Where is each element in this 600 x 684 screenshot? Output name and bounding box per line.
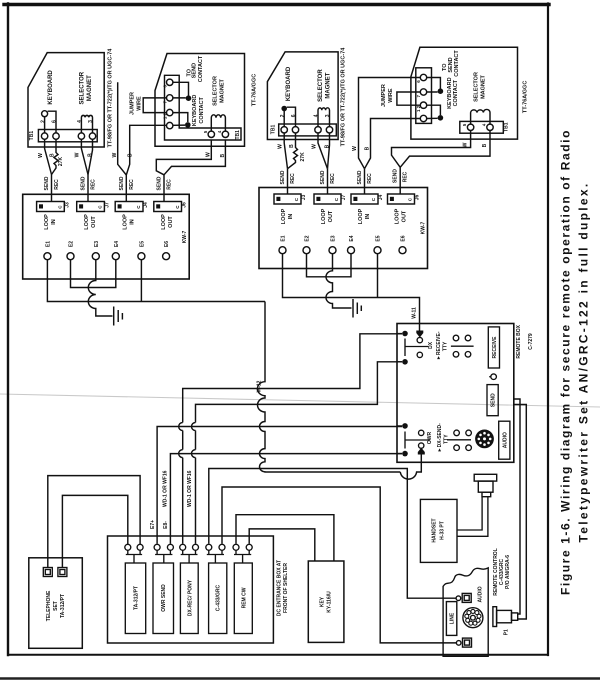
terminal E3 <box>329 247 336 254</box>
svg-text:6: 6 <box>291 114 297 117</box>
remote control body with torn top edge <box>443 568 488 656</box>
svg-text:TB1: TB1 <box>235 130 241 140</box>
svg-text:E1: E1 <box>281 235 287 241</box>
svg-text:KEYBOARD: KEYBOARD <box>48 70 54 105</box>
svg-text:1 2: 1 2 <box>162 112 167 119</box>
svg-text:WIRE: WIRE <box>137 96 143 111</box>
wire telephone L2 to DC terminal 1 <box>62 495 127 567</box>
connector B pins <box>276 197 280 201</box>
svg-text:B: B <box>289 144 295 148</box>
wire TT-76A#2 t5 route to J6 (W) <box>392 131 471 168</box>
terminal E4 <box>348 247 355 254</box>
svg-text:E4: E4 <box>349 235 355 241</box>
terminal 4 <box>78 133 84 139</box>
wire terminal4 to J7 send <box>318 133 328 169</box>
svg-text:J3: J3 <box>301 195 307 201</box>
svg-text:SEND: SEND <box>119 176 125 190</box>
terminal strip (L shape) of TT-76A #1 <box>165 75 242 140</box>
svg-text:E4: E4 <box>114 241 120 247</box>
page fold artifact line <box>0 394 600 407</box>
svg-text:LOOP: LOOP <box>84 214 90 230</box>
wire DC terminal 8 to remote control L2 <box>222 487 457 643</box>
wire TT-76A#2 t6 route to J4 (W) <box>359 78 421 169</box>
wire KEY b : to DC terminal 9 <box>236 515 334 561</box>
wire KEY a : to DC terminal 10 <box>249 529 315 561</box>
P1 cable wires from remote box <box>514 399 527 619</box>
svg-text:AUDIO: AUDIO <box>502 432 508 448</box>
terminal E5 <box>138 253 145 260</box>
svg-text:2: 2 <box>40 120 46 123</box>
terminal L1 circle <box>456 596 461 601</box>
terminal 5 <box>467 124 473 130</box>
svg-text:C-433/GRC: C-433/GRC <box>216 585 222 612</box>
svg-text:C-433/GRC: C-433/GRC <box>499 559 505 586</box>
sub-box OWR SEND <box>153 563 174 634</box>
svg-text:J7: J7 <box>341 195 347 201</box>
terminal 2 <box>281 127 287 133</box>
svg-text:SET: SET <box>53 601 59 611</box>
svg-text:IN: IN <box>51 219 57 225</box>
terminal 7 <box>420 89 426 95</box>
terminal 6 <box>420 74 426 80</box>
svg-text:DC ENTRANCE BOX AT: DC ENTRANCE BOX AT <box>277 560 283 616</box>
border frame top <box>4 3 549 6</box>
svg-text:KEY: KEY <box>320 596 326 607</box>
plug P1 <box>493 607 497 627</box>
teletypewriter TT-76A #1 body <box>155 54 245 147</box>
border frame left <box>7 4 9 656</box>
svg-text:RECEIVE: RECEIVE <box>492 336 498 359</box>
svg-text:J4: J4 <box>143 202 149 208</box>
svg-text:IN: IN <box>129 219 135 225</box>
svg-text:TB1: TB1 <box>29 131 35 141</box>
terminal 4 <box>315 127 321 133</box>
connector J4 <box>351 194 378 204</box>
connector J6 <box>388 194 415 204</box>
send contact wiring (6-7) <box>173 82 189 98</box>
svg-text:REC: REC <box>129 179 135 190</box>
svg-text:W: W <box>462 142 468 147</box>
svg-text:MAGNET: MAGNET <box>325 72 331 98</box>
keyboard contact wiring <box>427 105 441 118</box>
svg-text:CONTACT: CONTACT <box>453 79 459 106</box>
terminal 3 <box>326 127 332 133</box>
svg-text:KEYBOARD: KEYBOARD <box>192 95 198 127</box>
selector magnet coil of TT-76A #2 <box>471 109 490 124</box>
terminal E1 <box>44 253 51 260</box>
connector J6 <box>154 202 182 212</box>
svg-text:MAGNET: MAGNET <box>481 74 487 98</box>
terminal E1 <box>279 247 286 254</box>
wire terminal6 with 27K resistor to J3 rec <box>288 133 298 169</box>
svg-text:W: W <box>352 146 358 151</box>
sub-box C-433/GRC <box>209 563 227 634</box>
DC entrance box body <box>108 536 274 643</box>
crypto unit KW-7 #1 body <box>23 194 190 279</box>
terminal E6 <box>163 253 170 260</box>
wire J7 feed <box>327 169 329 194</box>
SEND button <box>487 385 498 416</box>
svg-text:KY-116/U: KY-116/U <box>327 591 333 613</box>
wire E2 to E4 <box>71 260 116 288</box>
wire E8- : DC terminal 4 to OWR dot 2 <box>170 454 402 544</box>
wire J7 feed <box>87 175 89 202</box>
terminal L2 circle <box>456 641 461 646</box>
svg-text:3: 3 <box>88 120 94 123</box>
wire terminal2 to J3 send <box>45 139 52 174</box>
audio connector (filled) <box>475 430 494 449</box>
svg-text:CONTACT: CONTACT <box>454 50 460 77</box>
wire terminal3 to J7 rec <box>328 133 330 169</box>
svg-text:TO: TO <box>442 63 448 71</box>
terminals row <box>125 544 131 550</box>
svg-text:E2: E2 <box>305 235 311 241</box>
svg-text:TTY: TTY <box>443 434 449 444</box>
wire WD-1 b : DC terminal 6 to DX dot 2 <box>192 362 403 544</box>
svg-text:TELEPHONE: TELEPHONE <box>46 590 52 621</box>
jumper wire between 7 and 2 <box>397 92 420 105</box>
svg-text:►DX-SEND-: ►DX-SEND- <box>437 423 443 452</box>
terminal 7 <box>167 95 173 101</box>
ground symbol <box>353 299 361 318</box>
wire E3 to ground (hops over crossing wires) <box>326 254 352 308</box>
svg-text:H-33 PT: H-33 PT <box>440 521 446 540</box>
wire E7+ : DC terminal 3 to OWR dot 1 <box>157 427 402 544</box>
border frame bottom <box>8 654 548 656</box>
svg-text:REC: REC <box>367 173 373 184</box>
svg-text:W: W <box>38 153 44 158</box>
svg-text:B: B <box>220 154 226 158</box>
svg-text:WD-1 OR WF16: WD-1 OR WF16 <box>163 470 169 507</box>
svg-text:SELECTOR: SELECTOR <box>79 71 85 104</box>
terminal 4 <box>487 124 493 130</box>
wire J4 feed <box>364 169 366 194</box>
svg-text:B: B <box>364 146 370 150</box>
svg-text:W: W <box>278 144 284 149</box>
svg-text:W: W <box>75 152 81 157</box>
DX receive jack group <box>397 334 402 362</box>
svg-text:JUMPER: JUMPER <box>381 84 387 107</box>
svg-text:4: 4 <box>314 114 320 117</box>
wire remote box to P1 (b) <box>514 405 527 620</box>
svg-text:SELECTOR: SELECTOR <box>474 72 480 102</box>
connector B pins <box>39 204 43 208</box>
terminal E2 <box>67 253 74 260</box>
terminal 2 <box>41 133 47 139</box>
svg-text:E3: E3 <box>331 235 337 241</box>
wire TT-76A t5 route to J6 (W) <box>156 140 211 175</box>
entry dot OWR 2 <box>402 451 408 457</box>
terminal L1 square <box>462 593 471 602</box>
AUDIO button <box>499 421 510 459</box>
wire J4 feed <box>125 175 127 202</box>
svg-text:TB1: TB1 <box>271 125 277 135</box>
plug tip W-12 <box>418 448 425 455</box>
svg-text:HANDSET: HANDSET <box>432 518 438 542</box>
svg-text:OUT: OUT <box>328 210 334 222</box>
terminal strip TB1 of TT-76A #2 <box>460 121 504 133</box>
terminal E5 <box>374 247 381 254</box>
svg-text:KEYBOARD: KEYBOARD <box>286 66 292 101</box>
svg-text:SEND: SEND <box>320 170 326 184</box>
svg-text:MAGNET: MAGNET <box>220 78 226 102</box>
junction dot send contact <box>186 95 192 101</box>
svg-text:►RECEIVE-: ►RECEIVE- <box>436 331 442 360</box>
svg-text:REMOTE CONTROL: REMOTE CONTROL <box>493 548 499 596</box>
keyboard contact (closed dot) of TT-98 #2 <box>284 107 295 127</box>
LINE button <box>446 602 456 636</box>
terminal 2 <box>167 109 173 115</box>
svg-text:B: B <box>127 153 133 157</box>
connector J7 <box>77 202 105 212</box>
teletypewriter TT-98 #2 body <box>267 52 338 140</box>
connector J3 <box>274 194 301 204</box>
junction dot send contact <box>438 88 444 94</box>
svg-text:KW-7: KW-7 <box>421 221 427 234</box>
svg-text:SELECTOR: SELECTOR <box>318 69 324 102</box>
svg-text:SEND: SEND <box>357 170 363 184</box>
svg-text:TT-76A/GGC: TT-76A/GGC <box>523 81 529 113</box>
svg-text:LOOP: LOOP <box>358 208 364 224</box>
terminal E4 <box>112 253 119 260</box>
svg-text:DX: DX <box>428 341 434 349</box>
page bottom rule <box>0 677 600 679</box>
svg-text:J3: J3 <box>64 202 70 208</box>
svg-text:SEND: SEND <box>44 176 50 190</box>
svg-text:P1: P1 <box>503 629 509 635</box>
sub-box REM CW <box>234 563 252 634</box>
terminal 1 <box>167 122 173 128</box>
svg-text:WD-1 OR WF16: WD-1 OR WF16 <box>187 470 193 507</box>
svg-text:JUMPER: JUMPER <box>129 92 135 115</box>
wire DC terminal 7 to remote control L1 <box>209 469 456 599</box>
svg-text:E2: E2 <box>69 241 75 247</box>
svg-text:SEND: SEND <box>491 393 497 407</box>
wire TT-76A t1 route to J4 (B) <box>126 125 166 175</box>
svg-text:C-7279: C-7279 <box>528 333 534 350</box>
remote box body <box>397 324 514 463</box>
terminal 1 <box>420 115 426 121</box>
wire E1/E5 to W-12 <box>47 260 265 302</box>
selector magnet coil of TT-76A #1 <box>211 115 225 131</box>
sub-box DX-REC/PONY <box>180 563 198 634</box>
svg-text:LOOP: LOOP <box>321 208 327 224</box>
svg-text:W-12: W-12 <box>257 380 263 392</box>
keyboard dot contact <box>281 106 287 112</box>
teletypewriter TT-98 #1 body <box>28 53 104 147</box>
svg-text:MAGNET: MAGNET <box>87 75 93 101</box>
wire E2 to E4 <box>307 254 352 277</box>
OWR spare jacks <box>454 430 460 436</box>
svg-text:REC: REC <box>54 179 60 190</box>
wire J6 feed <box>399 167 401 194</box>
svg-text:Figure 1-6. Wiring diagram fo: Figure 1-6. Wiring diagram for secure re… <box>558 129 572 595</box>
svg-text:3: 3 <box>325 114 331 117</box>
svg-text:TT-98/FG OR TT-722(*)/TG OR U: TT-98/FG OR TT-722(*)/TG OR UGC-74 <box>108 48 114 148</box>
terminal 6 <box>167 79 173 85</box>
entry dot DX 2 <box>402 359 408 365</box>
entry dot DX 1 <box>402 331 408 337</box>
svg-text:OWR: OWR <box>427 432 433 445</box>
svg-text:SEND: SEND <box>280 170 286 184</box>
svg-text:CONTACT: CONTACT <box>198 55 204 82</box>
svg-text:REC: REC <box>290 173 296 184</box>
terminal 6 <box>53 133 59 139</box>
svg-text:DX-REC/ PONY: DX-REC/ PONY <box>187 579 193 616</box>
svg-text:1 2: 1 2 <box>416 105 421 112</box>
svg-text:TB1: TB1 <box>504 122 510 132</box>
svg-text:REC: REC <box>167 179 173 190</box>
svg-text:REMOTE BOX: REMOTE BOX <box>516 324 522 358</box>
OWR send jack group <box>397 426 402 454</box>
svg-text:W: W <box>312 144 318 149</box>
sub-box TA-312/PT <box>125 563 145 634</box>
svg-text:B: B <box>49 153 55 157</box>
svg-text:E5: E5 <box>376 235 382 241</box>
selector magnet coil of TT-98 #2 <box>318 108 330 127</box>
handset cord (double line) <box>457 497 488 537</box>
terminal L1 <box>43 568 52 577</box>
connector J4 <box>115 202 143 212</box>
terminal L2 square <box>463 638 472 647</box>
wire J3 feed <box>287 169 289 194</box>
wire TT-76A t4 route to J6 (B) <box>164 140 225 175</box>
send contact wiring <box>427 78 441 93</box>
svg-text:SEND: SEND <box>157 176 163 190</box>
teletypewriter TT-76A #2 body <box>411 47 518 139</box>
terminal tie bars <box>126 550 142 563</box>
wire remote box to P1 (a) <box>514 399 520 614</box>
svg-text:OUT: OUT <box>168 216 174 228</box>
plug tip W-11 <box>416 331 423 338</box>
terminal E3 <box>92 253 99 260</box>
svg-text:TT-76A/GGC: TT-76A/GGC <box>252 74 258 106</box>
svg-text:P/O AN/GRA-6: P/O AN/GRA-6 <box>505 555 511 589</box>
keyboard contact (open) of TT-98 #1 <box>42 111 48 117</box>
wire terminal6 with 27K resistor to J3 rec <box>52 139 59 174</box>
svg-text:LOOP: LOOP <box>394 208 400 224</box>
svg-text:27K: 27K <box>58 157 64 167</box>
svg-text:WIRE: WIRE <box>388 88 394 103</box>
svg-text:TA-312/PT: TA-312/PT <box>134 586 140 610</box>
svg-text:E6: E6 <box>164 241 170 247</box>
svg-text:E5: E5 <box>139 241 145 247</box>
svg-text:FRONT OF SHELTER: FRONT OF SHELTER <box>283 563 289 613</box>
wire J3 feed <box>51 175 53 202</box>
RECEIVE button <box>488 327 499 368</box>
svg-text:OUT: OUT <box>91 216 97 228</box>
terminal 4 <box>222 131 228 137</box>
svg-text:REC: REC <box>403 171 409 182</box>
svg-text:SEND: SEND <box>192 63 198 78</box>
svg-text:4: 4 <box>77 120 83 123</box>
svg-text:LOOP: LOOP <box>44 214 50 230</box>
svg-text:E3: E3 <box>94 241 100 247</box>
svg-text:OWR SEND: OWR SEND <box>161 584 167 612</box>
svg-text:LOOP: LOOP <box>281 208 287 224</box>
svg-text:W: W <box>206 152 212 157</box>
terminal strip TB1 of TT-98 #1 <box>38 130 97 142</box>
handset body <box>420 499 457 562</box>
svg-text:SEND: SEND <box>81 176 87 190</box>
audio connector (open) <box>463 608 483 628</box>
svg-text:W-11: W-11 <box>411 307 417 319</box>
svg-text:27K: 27K <box>300 152 306 162</box>
junction dot keyboard contact <box>438 115 444 121</box>
svg-text:6: 6 <box>52 120 58 123</box>
svg-text:B: B <box>482 143 488 147</box>
svg-text:E7+: E7+ <box>150 520 156 529</box>
wire telephone L1 to DC terminal 2 <box>48 476 140 568</box>
terminal E2 <box>303 247 310 254</box>
telephone set body <box>29 558 83 649</box>
entry dot OWR 1 <box>402 423 408 429</box>
svg-text:REC: REC <box>91 179 97 190</box>
selector magnet coil of TT-98 #1 <box>81 115 92 133</box>
svg-text:SEND: SEND <box>393 169 399 183</box>
wire E3 to ground (hops over crossing wires) <box>88 260 112 316</box>
wire J6 feed <box>163 175 165 202</box>
svg-text:KW-7: KW-7 <box>182 230 188 243</box>
svg-text:LINE: LINE <box>450 612 456 624</box>
wire TT-76A t6 route to J4 (W) <box>118 82 127 175</box>
terminal 5 <box>208 131 214 137</box>
border frame right <box>547 4 549 656</box>
svg-text:REM CW: REM CW <box>241 587 247 608</box>
svg-text:E1: E1 <box>45 241 51 247</box>
wire E1/E5 to W-11 <box>283 254 420 331</box>
keyboard contact wiring (2-1) <box>173 113 188 126</box>
svg-text:W: W <box>112 153 118 158</box>
svg-text:TA-312/PT: TA-312/PT <box>60 594 66 618</box>
svg-text:SELECTOR: SELECTOR <box>213 76 219 106</box>
svg-text:LOOP: LOOP <box>161 214 167 230</box>
svg-text:J7: J7 <box>105 202 111 208</box>
connector J3 <box>37 202 65 212</box>
svg-text:J4: J4 <box>378 195 384 201</box>
svg-text:B: B <box>324 144 330 148</box>
svg-text:2: 2 <box>280 114 286 117</box>
svg-text:CONTACT: CONTACT <box>199 97 205 124</box>
key body <box>308 561 344 642</box>
svg-text:OUT: OUT <box>401 210 407 222</box>
svg-text:IN: IN <box>288 214 294 220</box>
terminal 3 <box>89 133 95 139</box>
wire TT-76A#2 t1 route to J4 (B) <box>365 119 421 169</box>
terminal strip TB1 of TT-98 #2 <box>279 124 337 136</box>
junction dot keyboard contact <box>185 122 191 128</box>
wire terminal4 to J7 send <box>81 139 88 174</box>
svg-text:Teletypewriter Set AN/GRC-122: Teletypewriter Set AN/GRC-122 in full du… <box>577 182 591 543</box>
wire TT-76A#2 t4 route to J6 (B) <box>400 131 490 168</box>
svg-text:J6: J6 <box>415 195 421 201</box>
talk icon <box>491 374 497 380</box>
svg-text:REC: REC <box>330 173 336 184</box>
connector J7 <box>314 194 341 204</box>
wire WD-1 a : DC terminal 5 to DX dot 1 <box>179 334 402 544</box>
svg-text:AUDIO: AUDIO <box>477 586 483 602</box>
svg-text:LOOP: LOOP <box>122 214 128 230</box>
svg-text:B: B <box>87 153 93 157</box>
svg-text:TTY: TTY <box>443 341 449 351</box>
terminal strip of TT-76A #2 <box>416 68 432 124</box>
svg-text:E6: E6 <box>401 235 407 241</box>
svg-text:TT-98/FG OR TT-722(*)/TG OR UG: TT-98/FG OR TT-722(*)/TG OR UGC-74 <box>341 47 347 147</box>
terminal 6 <box>292 127 298 133</box>
wire W-12: E1 KW-7#1 to OWR jack of remote box <box>258 302 422 480</box>
terminal E6 <box>399 247 406 254</box>
ground symbol <box>114 307 123 326</box>
